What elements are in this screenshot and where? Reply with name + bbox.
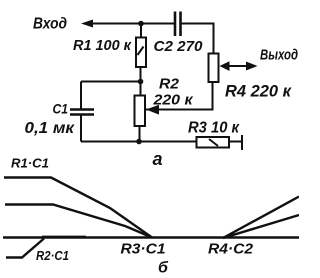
svg-text:0,1 мк: 0,1 мк [25,120,75,137]
svg-text:220 к: 220 к [152,92,194,109]
svg-text:Вход: Вход [33,16,67,33]
graph lines [3,178,299,258]
wire R2 bottom lead [139,126,141,142]
arrow R2 wiper [146,105,159,115]
capacitor C2 [175,12,181,37]
wire C1 bottom lead [80,115,82,142]
wire R4 bottom to R2 wiper [157,109,214,111]
svg-text:С2 270: С2 270 [154,38,204,55]
svg-text:С1: С1 [53,101,69,117]
wire R1 bottom lead [140,67,142,95]
resistor R2 (potentiometer) [135,96,146,127]
wire C1 top lead [80,82,82,109]
arrow R4 wiper [220,61,230,71]
svg-text:R2: R2 [159,76,180,93]
wire top rail right of C2 [181,23,214,25]
svg-text:R4·С2: R4·С2 [208,242,253,258]
svg-text:R4 220 к: R4 220 к [225,82,292,101]
wire output [228,65,250,67]
axis flat line thick overlap [42,236,86,238]
wire vertical to R4 top [213,23,215,54]
wire R2 wiper stub [146,109,158,111]
svg-text:R2·С1: R2·С1 [36,248,69,263]
svg-text:R1 100 к: R1 100 к [73,37,132,54]
svg-text:Выход: Выход [260,47,298,64]
node R1 bottom junction [138,79,144,85]
curve R4C2 shallow [223,215,299,238]
resistor R3 [197,137,230,148]
resistor R4 (potentiometer) [209,54,219,83]
arrow output [246,62,258,71]
wire C1 top branch [81,81,141,83]
svg-text:R1·С1: R1·С1 [11,156,49,171]
wire R1 top lead [140,24,142,38]
wire R3 right lead [229,141,242,143]
curve R2C1 rise [6,239,44,258]
svg-text:R3·С1: R3·С1 [121,242,166,258]
wire R3 terminal [241,135,243,150]
curve R4C2 steep [223,197,299,239]
svg-text:а: а [153,149,163,169]
curve R2C1 mid flat [5,205,152,238]
resistor R1 [136,38,146,68]
arrow input [81,20,93,28]
wire C1 bottom branch [81,141,139,143]
wire bottom rail to R3 [139,141,196,143]
capacitor C1 [70,110,94,115]
curve R1C1 flat [4,178,152,238]
wire top rail [84,23,174,25]
svg-text:R3 10 к: R3 10 к [188,120,240,137]
node R2 bottom junction [136,139,142,145]
node top junction [138,21,144,27]
axis flat line [3,236,299,238]
svg-text:б: б [158,260,169,277]
wire R4 bottom lead [212,82,214,110]
